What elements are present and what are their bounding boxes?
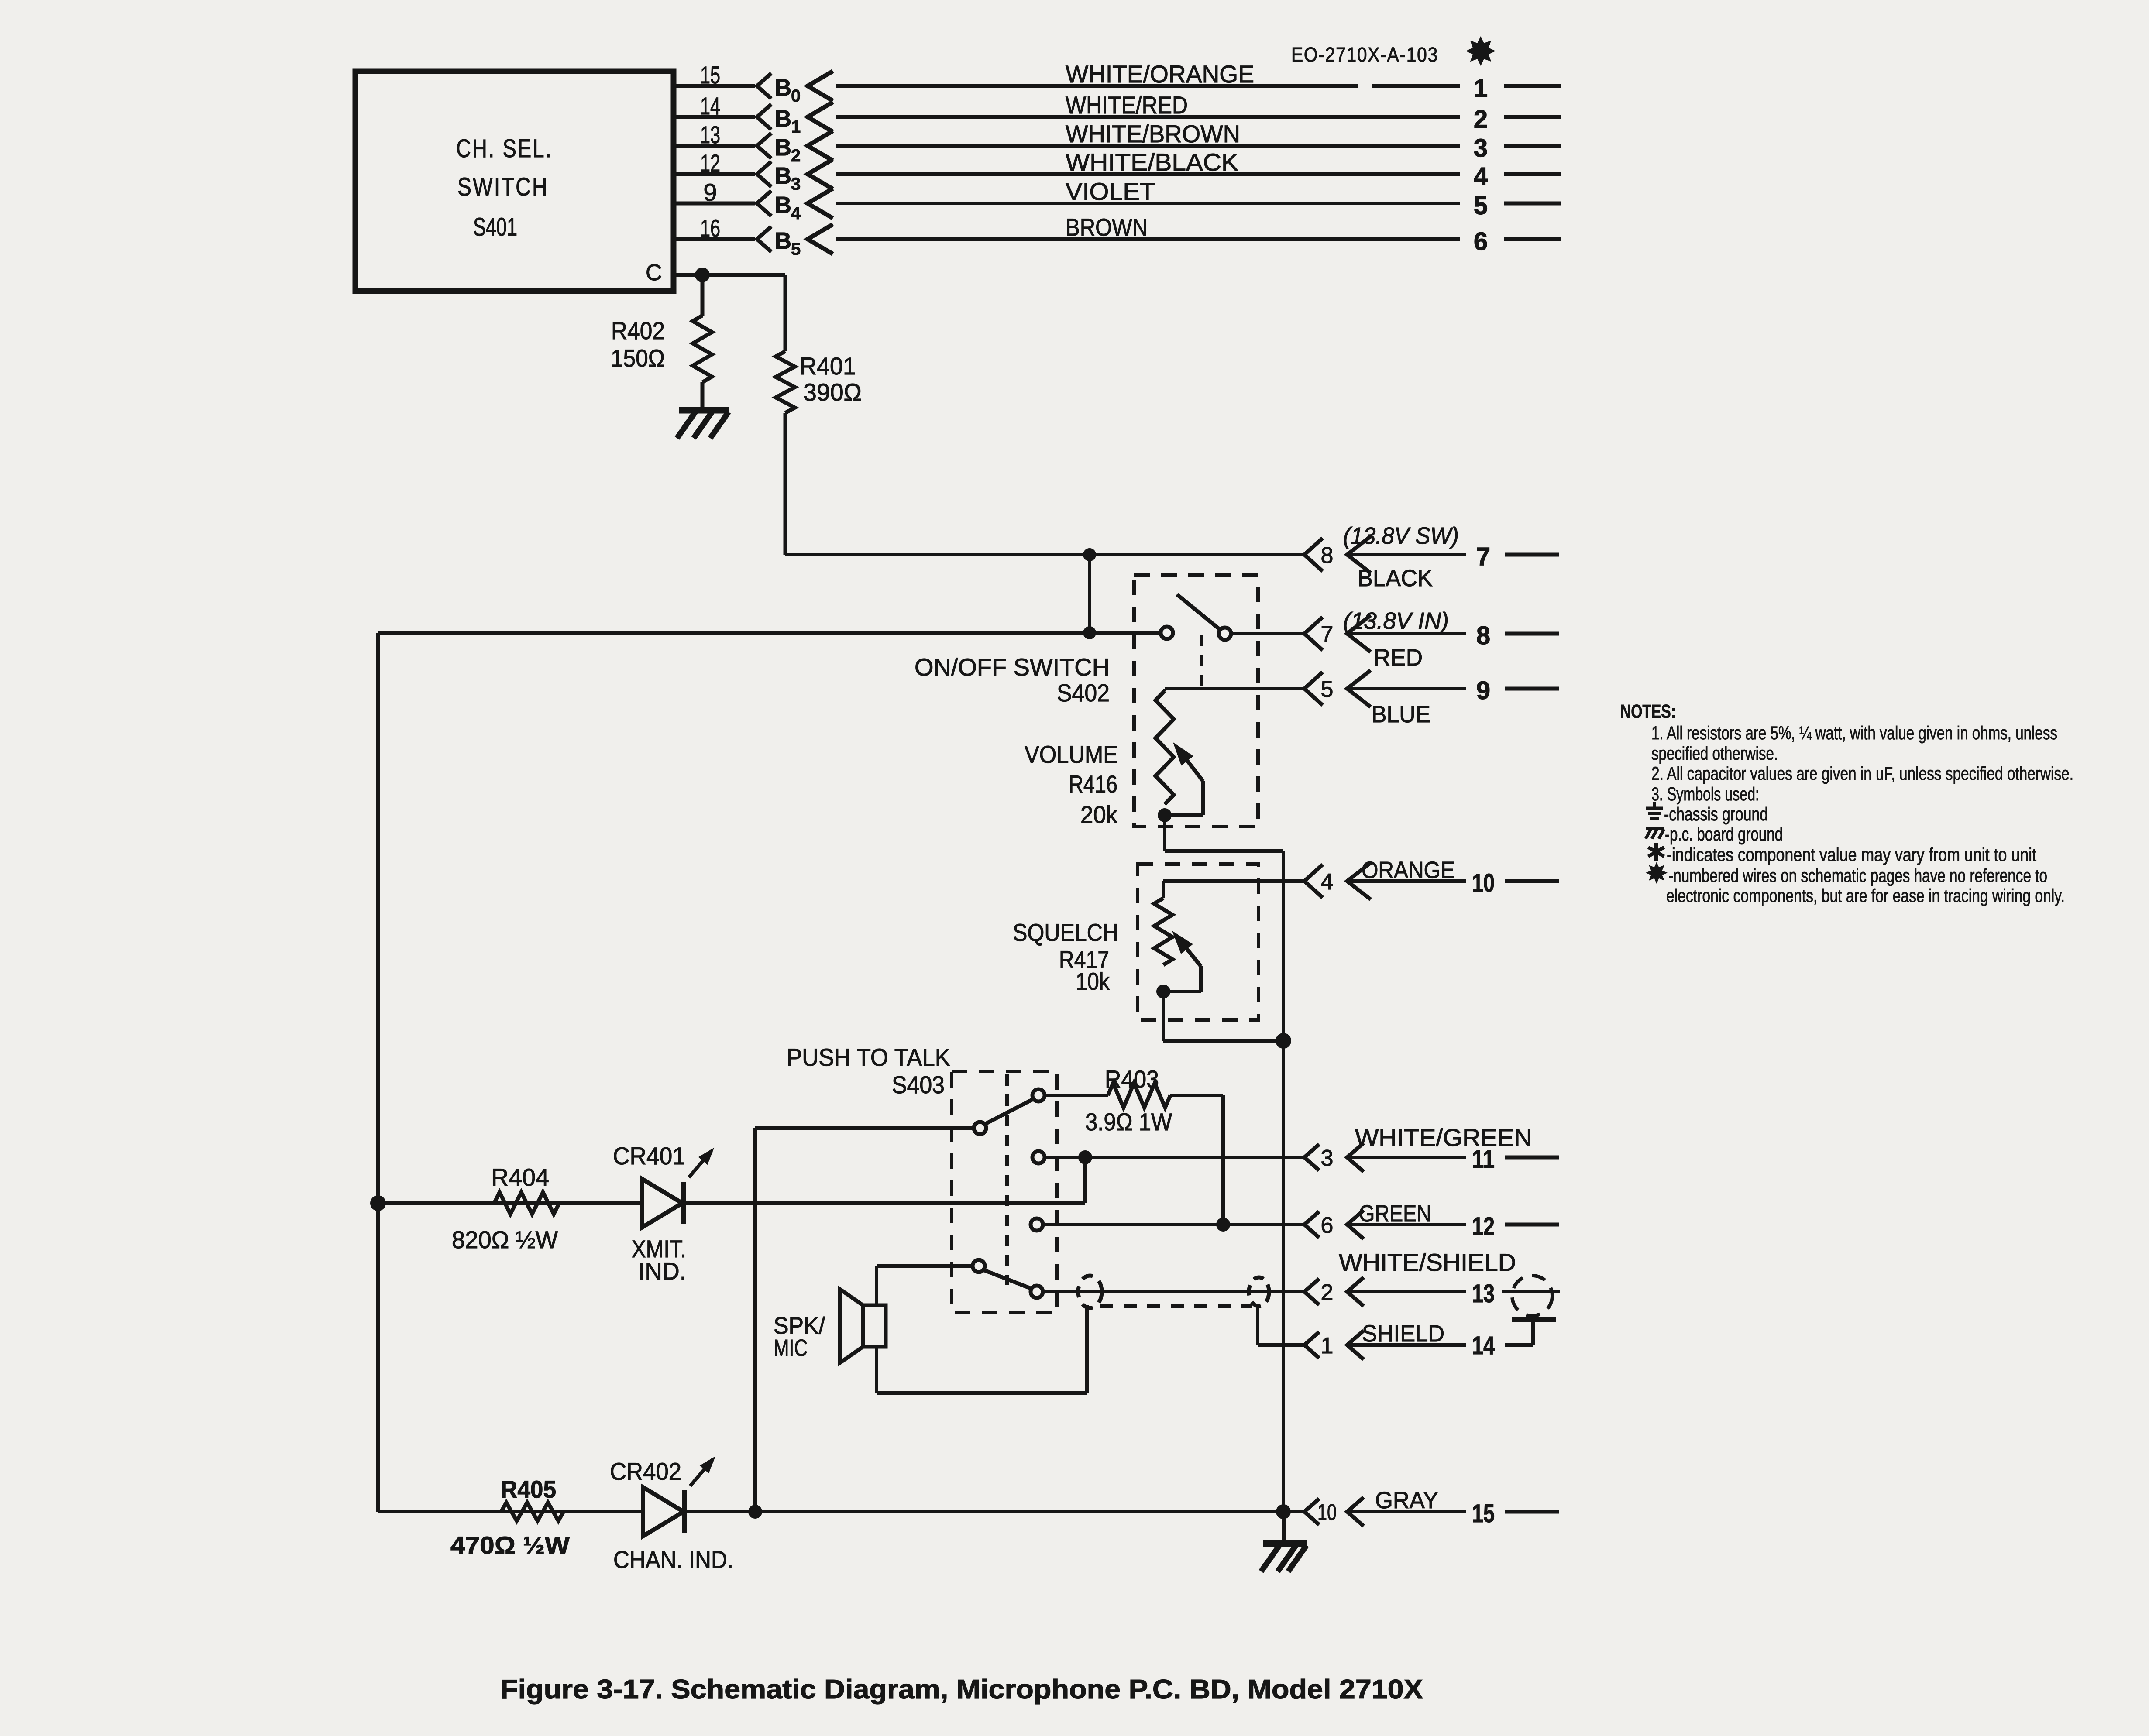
svg-text:2: 2 <box>1321 1280 1334 1305</box>
svg-text:14: 14 <box>1472 1331 1495 1360</box>
svg-text:SHIELD: SHIELD <box>1362 1321 1444 1347</box>
svg-text:-numbered wires on schematic p: -numbered wires on schematic pages have … <box>1668 865 2047 886</box>
svg-text:RED: RED <box>1374 645 1423 671</box>
svg-text:4: 4 <box>791 204 801 223</box>
svg-text:16: 16 <box>700 214 720 242</box>
svg-text:ON/OFF SWITCH: ON/OFF SWITCH <box>915 653 1110 681</box>
svg-text:B: B <box>774 134 791 161</box>
svg-text:10: 10 <box>1472 869 1495 897</box>
svg-text:IND.: IND. <box>638 1257 686 1285</box>
svg-text:3: 3 <box>1321 1146 1334 1171</box>
svg-text:20k: 20k <box>1080 801 1118 828</box>
svg-text:9: 9 <box>1476 676 1490 705</box>
svg-text:WHITE/GREEN: WHITE/GREEN <box>1355 1124 1532 1151</box>
svg-text:CR402: CR402 <box>610 1458 681 1485</box>
svg-text:15: 15 <box>700 61 720 89</box>
svg-text:GREEN: GREEN <box>1359 1201 1431 1227</box>
svg-text:2: 2 <box>1474 105 1488 134</box>
svg-text:(13.8V IN): (13.8V IN) <box>1343 608 1449 634</box>
svg-text:SQUELCH: SQUELCH <box>1013 919 1118 946</box>
svg-text:CHAN. IND.: CHAN. IND. <box>613 1546 733 1573</box>
svg-text:WHITE/BLACK: WHITE/BLACK <box>1066 148 1238 176</box>
svg-text:C: C <box>646 260 662 285</box>
svg-text:S403: S403 <box>892 1071 945 1098</box>
svg-text:4: 4 <box>1321 869 1334 895</box>
svg-text:CR401: CR401 <box>613 1142 685 1170</box>
svg-text:12: 12 <box>1472 1212 1495 1241</box>
svg-text:S401: S401 <box>473 213 517 241</box>
svg-text:WHITE/SHIELD: WHITE/SHIELD <box>1339 1249 1516 1276</box>
svg-text:-p.c. board ground: -p.c. board ground <box>1665 824 1783 845</box>
svg-text:GRAY: GRAY <box>1375 1487 1438 1513</box>
svg-text:7: 7 <box>1321 622 1334 647</box>
svg-text:2. All capacitor values are gi: 2. All capacitor values are given in uF,… <box>1651 763 2073 784</box>
svg-text:PUSH TO TALK: PUSH TO TALK <box>787 1043 950 1071</box>
svg-text:820Ω ½W: 820Ω ½W <box>452 1226 558 1253</box>
svg-text:R416: R416 <box>1069 770 1117 798</box>
svg-text:B: B <box>774 192 791 218</box>
svg-text:R405: R405 <box>501 1475 556 1503</box>
svg-text:5: 5 <box>1474 192 1488 220</box>
svg-text:CH. SEL.: CH. SEL. <box>456 134 553 163</box>
svg-text:R404: R404 <box>491 1163 549 1191</box>
svg-text:(13.8V SW): (13.8V SW) <box>1343 523 1459 549</box>
svg-text:10k: 10k <box>1076 967 1110 995</box>
svg-text:MIC: MIC <box>774 1335 808 1361</box>
svg-text:10: 10 <box>1317 1500 1337 1525</box>
svg-text:ORANGE: ORANGE <box>1362 857 1455 883</box>
svg-text:13: 13 <box>700 121 720 148</box>
svg-text:NOTES:: NOTES: <box>1620 701 1676 722</box>
svg-text:BLACK: BLACK <box>1358 565 1433 591</box>
svg-text:5: 5 <box>1321 677 1334 702</box>
svg-text:6: 6 <box>1474 227 1488 256</box>
svg-text:-indicates component value may: -indicates component value may vary from… <box>1667 844 2036 865</box>
svg-text:3. Symbols used:: 3. Symbols used: <box>1651 784 1759 805</box>
svg-text:SWITCH: SWITCH <box>457 173 549 201</box>
svg-text:1: 1 <box>1321 1333 1334 1359</box>
svg-text:15: 15 <box>1472 1499 1495 1528</box>
svg-text:B: B <box>774 75 791 101</box>
svg-text:-chassis ground: -chassis ground <box>1664 804 1768 825</box>
svg-text:9: 9 <box>703 178 717 206</box>
svg-text:R403: R403 <box>1105 1065 1159 1093</box>
svg-text:390Ω: 390Ω <box>803 378 862 406</box>
svg-text:5: 5 <box>791 240 801 259</box>
svg-text:6: 6 <box>1321 1213 1334 1238</box>
svg-text:3.9Ω 1W: 3.9Ω 1W <box>1085 1108 1172 1136</box>
svg-text:14: 14 <box>700 92 720 120</box>
svg-text:3: 3 <box>1474 134 1488 162</box>
svg-text:VOLUME: VOLUME <box>1025 741 1118 768</box>
svg-text:12: 12 <box>700 149 720 177</box>
svg-text:WHITE/BROWN: WHITE/BROWN <box>1066 120 1240 148</box>
svg-text:1: 1 <box>1474 74 1488 103</box>
svg-text:EO-2710X-A-103: EO-2710X-A-103 <box>1291 43 1438 66</box>
svg-text:R401: R401 <box>800 352 856 380</box>
svg-text:B: B <box>774 228 791 254</box>
svg-text:WHITE/ORANGE: WHITE/ORANGE <box>1066 60 1254 88</box>
svg-text:B: B <box>774 106 791 132</box>
svg-text:1. All resistors are 5%, ¼ wat: 1. All resistors are 5%, ¼ watt, with va… <box>1651 723 2057 744</box>
svg-text:8: 8 <box>1321 543 1334 568</box>
svg-text:R402: R402 <box>611 317 665 344</box>
svg-text:3: 3 <box>791 175 801 194</box>
svg-text:specified otherwise.: specified otherwise. <box>1651 743 1778 764</box>
svg-text:150Ω: 150Ω <box>611 344 665 372</box>
svg-text:1: 1 <box>791 117 801 137</box>
svg-text:BLUE: BLUE <box>1372 701 1430 727</box>
svg-text:8: 8 <box>1476 621 1490 650</box>
svg-text:electronic components, but are: electronic components, but are for ease … <box>1666 885 2065 906</box>
svg-text:2: 2 <box>791 146 801 165</box>
svg-text:4: 4 <box>1474 162 1488 191</box>
svg-text:0: 0 <box>791 86 801 106</box>
svg-text:WHITE/RED: WHITE/RED <box>1066 91 1188 119</box>
svg-text:7: 7 <box>1476 542 1490 571</box>
svg-text:470Ω ½W: 470Ω ½W <box>450 1531 570 1559</box>
svg-text:13: 13 <box>1472 1280 1495 1308</box>
svg-text:BROWN: BROWN <box>1066 213 1148 241</box>
svg-text:S402: S402 <box>1057 679 1110 707</box>
svg-text:Figure 3-17. Schematic Diagram: Figure 3-17. Schematic Diagram, Micropho… <box>500 1674 1423 1705</box>
svg-text:VIOLET: VIOLET <box>1066 178 1155 205</box>
svg-text:B: B <box>774 163 791 189</box>
